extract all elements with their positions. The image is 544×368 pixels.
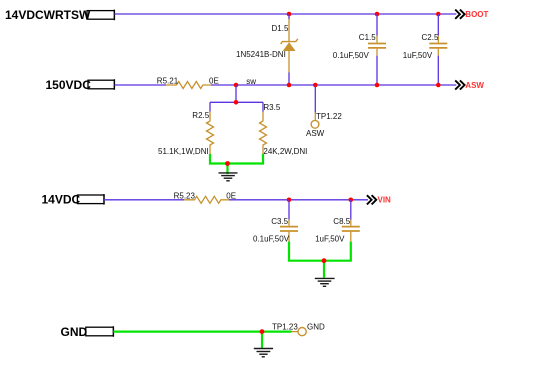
wire net GND <box>113 331 291 333</box>
svg-text:R5.23: R5.23 <box>174 191 196 200</box>
svg-text:0.1uF,50V: 0.1uF,50V <box>333 51 370 60</box>
svg-text:1N5241B-DNI: 1N5241B-DNI <box>236 50 286 59</box>
svg-text:0E: 0E <box>226 191 236 200</box>
junction BOOT rail / C1.5 <box>375 12 380 17</box>
svg-text:C3.5: C3.5 <box>271 217 288 226</box>
wire sw to divider rail <box>235 85 237 102</box>
resistor R2.5 <box>207 112 214 155</box>
junction divider ground rail <box>225 161 230 166</box>
svg-text:TP1.23: TP1.23 <box>272 323 298 332</box>
off-page connector VIN <box>367 195 391 204</box>
ground (divider) <box>219 164 238 181</box>
svg-text:VIN: VIN <box>378 196 392 205</box>
resistor R3.5 <box>260 112 267 155</box>
svg-text:150VDC: 150VDC <box>46 78 92 92</box>
capacitor C8.5 <box>342 220 360 242</box>
wire divider top rail <box>210 101 263 103</box>
svg-text:14VDC: 14VDC <box>42 192 81 206</box>
wire ASW rail to TP1.22 <box>314 85 316 113</box>
svg-text:1uF,50V: 1uF,50V <box>315 234 345 243</box>
port 150VDC <box>46 78 115 92</box>
svg-text:R3.5: R3.5 <box>263 103 280 112</box>
svg-text:GND: GND <box>61 325 88 339</box>
ground (caps) <box>315 261 335 287</box>
junction GND / ground <box>260 329 265 334</box>
wire D1.5 to ASW rail <box>288 73 290 86</box>
wire 14VDC to R5.23 <box>104 199 184 201</box>
svg-text:D1.5: D1.5 <box>272 24 289 33</box>
wire net ASW rail <box>211 84 456 86</box>
svg-text:GND: GND <box>307 323 325 332</box>
junction sw <box>234 83 239 88</box>
junction cap ground rail <box>322 258 327 263</box>
svg-text:R2.5: R2.5 <box>192 111 209 120</box>
junction VIN rail / C8.5 <box>349 198 354 203</box>
wire divider rail to R3.5 <box>262 102 264 111</box>
wire net BOOT top rail <box>114 13 456 15</box>
ground (GND net) <box>254 332 273 357</box>
junction ASW rail / D1.5 <box>287 83 292 88</box>
svg-text:ASW: ASW <box>465 81 484 90</box>
capacitor C3.5 <box>280 220 298 242</box>
svg-text:14VDCWRTSW: 14VDCWRTSW <box>5 8 91 22</box>
junction BOOT rail / C2.5 <box>436 12 441 17</box>
wire VIN rail to C3.5 <box>288 200 290 220</box>
svg-text:1uF,50V: 1uF,50V <box>403 51 433 60</box>
svg-text:C8.5: C8.5 <box>333 217 350 226</box>
wire C2.5 to ASW rail <box>437 56 439 85</box>
wire caps to ground rail <box>289 242 351 261</box>
port 14VDCWRTSW <box>5 8 114 22</box>
svg-text:sw: sw <box>246 77 256 86</box>
svg-text:51.1K,1W,DNI: 51.1K,1W,DNI <box>158 147 209 156</box>
svg-text:0.1uF,50V: 0.1uF,50V <box>253 234 290 243</box>
wire 150VDC to R5.21 <box>114 84 166 86</box>
svg-text:24K,2W,DNI: 24K,2W,DNI <box>263 147 307 156</box>
wire VIN rail to C8.5 <box>350 200 352 220</box>
port GND <box>61 325 114 339</box>
diode D1.5 (zener) <box>281 19 298 73</box>
junction VIN rail / C3.5 <box>287 198 292 203</box>
test point TP1.22 <box>311 113 319 129</box>
capacitor C2.5 <box>429 36 447 56</box>
wire C1.5 to ASW rail <box>376 56 378 85</box>
svg-text:R5.21: R5.21 <box>157 76 179 85</box>
svg-text:C2.5: C2.5 <box>422 33 439 42</box>
svg-text:0E: 0E <box>209 76 219 85</box>
resistor R5.21 <box>166 82 211 89</box>
wire net VIN rail <box>229 199 368 201</box>
test point TP1.23 <box>292 328 307 336</box>
junction ASW rail / C1.5 <box>375 83 380 88</box>
svg-text:BOOT: BOOT <box>465 10 488 19</box>
port 14VDC <box>42 192 105 206</box>
wire BOOT rail to C1.5 <box>376 14 378 36</box>
svg-text:C1.5: C1.5 <box>359 33 376 42</box>
svg-text:TP1.22: TP1.22 <box>316 112 342 121</box>
junction divider rail <box>234 100 239 105</box>
wire divider rail to R2.5 <box>209 102 211 111</box>
junction ASW rail / C2.5 <box>436 83 441 88</box>
junction BOOT rail / D1.5 <box>287 12 292 17</box>
wire BOOT rail to C2.5 <box>437 14 439 36</box>
svg-text:ASW: ASW <box>306 129 325 138</box>
junction ASW rail / TP1.22 <box>313 83 318 88</box>
wire divider resistors to ground rail <box>210 154 263 164</box>
wire BOOT rail to D1.5 <box>288 14 290 19</box>
resistor R5.23 <box>184 196 229 203</box>
off-page connector BOOT <box>455 10 488 19</box>
capacitor C1.5 <box>368 36 386 56</box>
off-page connector ASW <box>455 80 484 89</box>
